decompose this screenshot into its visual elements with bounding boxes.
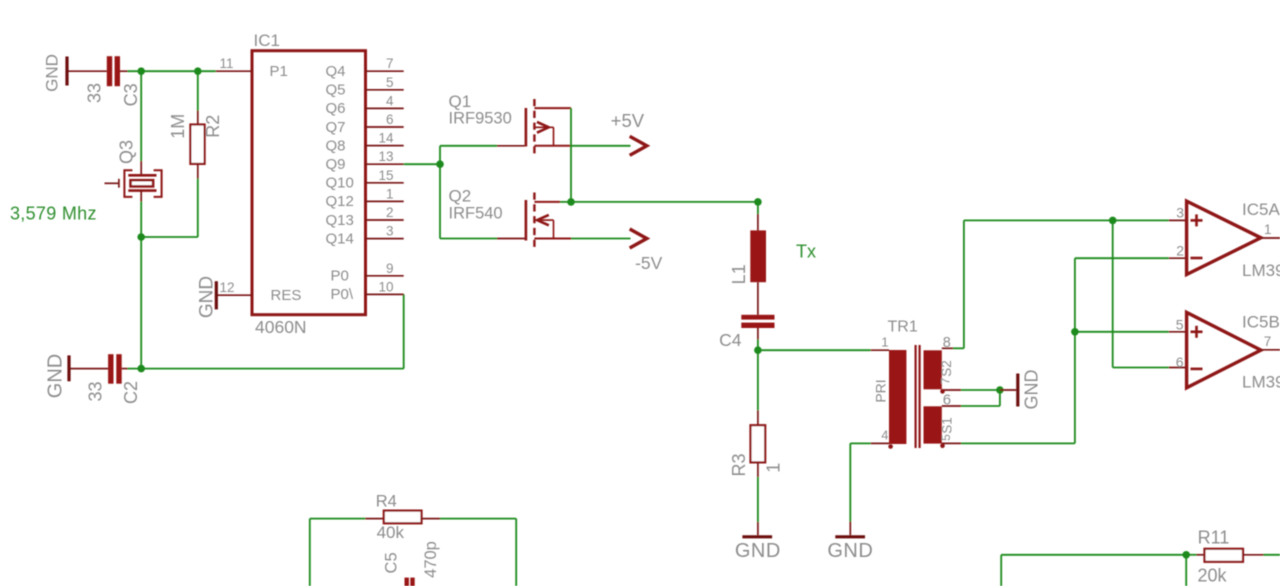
svg-text:C5: C5	[383, 552, 401, 573]
supply arrow +5V	[630, 136, 647, 155]
svg-text:1: 1	[386, 186, 394, 201]
resistor R3	[751, 425, 766, 477]
svg-text:6: 6	[943, 392, 951, 409]
svg-text:C3: C3	[121, 83, 141, 106]
svg-text:1: 1	[1264, 222, 1272, 237]
svg-text:IC1: IC1	[254, 31, 280, 50]
svg-text:8: 8	[943, 335, 951, 351]
svg-text:GND: GND	[45, 354, 67, 398]
wire Q2 drain to junction	[560, 201, 571, 203]
pin 3 (Q14)	[326, 224, 404, 248]
crystal Q3	[105, 161, 162, 202]
ground GND top-left (at C3)	[43, 54, 107, 92]
pin 10 (P0\)	[331, 279, 404, 303]
svg-text:1: 1	[764, 463, 784, 473]
svg-text:9: 9	[386, 261, 394, 276]
svg-text:2: 2	[1176, 242, 1184, 258]
svg-text:5: 5	[1176, 317, 1184, 333]
wire Q1 source to +5V	[571, 145, 631, 147]
svg-text:20k: 20k	[1197, 566, 1227, 586]
wire to R4 left	[310, 518, 384, 520]
svg-text:IRF540: IRF540	[449, 205, 503, 223]
svg-text:+5V: +5V	[611, 110, 645, 131]
ground GND at IC1 RES pin	[197, 276, 218, 318]
wire C2 to IC1 pin 10	[128, 294, 404, 368]
svg-text:33: 33	[85, 381, 105, 401]
pin 4 (Q6)	[326, 93, 404, 117]
svg-text:Q14: Q14	[326, 230, 354, 247]
junction at C4 bottom	[754, 346, 762, 354]
svg-text:7: 7	[386, 56, 394, 71]
svg-text:4: 4	[881, 428, 888, 443]
svg-text:14: 14	[378, 131, 394, 146]
svg-text:Q2: Q2	[449, 187, 472, 206]
pin 1 (Q12)	[326, 186, 404, 210]
svg-text:10: 10	[378, 279, 393, 294]
capacitor C5	[405, 578, 415, 586]
wire TR1 pin 7 to ground junction	[961, 389, 1000, 391]
svg-text:GND: GND	[43, 54, 62, 92]
svg-text:13: 13	[378, 149, 393, 164]
svg-text:6: 6	[386, 112, 394, 127]
svg-text:12: 12	[219, 280, 234, 295]
junction at IC5B pin 5	[1071, 328, 1079, 336]
svg-text:Tx: Tx	[796, 242, 816, 262]
wire junction down to IC5B - input (pin 6)	[1113, 220, 1186, 367]
wire junction down	[1185, 555, 1187, 586]
svg-text:Q9: Q9	[326, 156, 346, 173]
wire down to crystal Q3	[140, 71, 142, 161]
junction at L1 top	[754, 198, 762, 206]
wire TR1 pin 4 to ground	[850, 443, 870, 535]
wire Q1 drain to Q2 drain	[570, 108, 572, 202]
resistor R11	[1205, 549, 1244, 562]
svg-text:S1: S1	[940, 417, 955, 434]
wire bottom-right net into R11	[1001, 555, 1186, 586]
wire crystal bottom down to C2	[140, 237, 142, 369]
svg-text:GND: GND	[1022, 370, 1042, 410]
svg-text:15: 15	[378, 168, 393, 183]
ground GND at center tap	[1000, 370, 1042, 410]
junction at C3/crystal	[137, 67, 145, 75]
svg-text:4060N: 4060N	[255, 317, 307, 337]
svg-text:TR1: TR1	[888, 319, 918, 336]
wire R3 to ground	[757, 477, 759, 535]
svg-text:1M: 1M	[168, 114, 188, 139]
wire Q2 source to -5V	[571, 238, 631, 240]
svg-text:R3: R3	[729, 453, 749, 476]
svg-text:5: 5	[386, 75, 394, 90]
svg-text:RES: RES	[271, 287, 302, 304]
wire R11 right to edge	[1243, 554, 1280, 556]
svg-text:C2: C2	[121, 381, 141, 404]
junction at center tap	[996, 386, 1004, 394]
junction at crystal bottom	[137, 233, 145, 241]
pin 13 (Q9)	[326, 149, 404, 173]
pin 12 (RES)	[217, 280, 301, 304]
svg-text:5: 5	[939, 434, 953, 441]
op-amp IC5B	[1187, 312, 1280, 387]
svg-text:-5V: -5V	[635, 253, 663, 273]
svg-text:R4: R4	[376, 493, 397, 511]
svg-text:GND: GND	[827, 540, 873, 562]
pin 11 (P1)	[216, 56, 288, 80]
wire junction to pin 5	[1075, 331, 1186, 333]
pin 6 (Q7)	[326, 112, 404, 136]
svg-text:GND: GND	[735, 540, 781, 562]
svg-text:Q4: Q4	[326, 63, 346, 80]
svg-text:1: 1	[881, 335, 888, 350]
ground GND below R3	[735, 537, 781, 562]
svg-text:IC5B: IC5B	[1242, 312, 1280, 331]
resistor R4	[384, 511, 422, 524]
wire bottom-left loop left side	[309, 519, 311, 586]
wire junction up to IC5A - input (pin 2)	[1075, 258, 1186, 332]
junction at R2 top	[194, 67, 202, 75]
wire R4 right side down	[422, 519, 517, 586]
svg-text:6: 6	[1176, 354, 1184, 370]
svg-text:GND: GND	[197, 276, 218, 318]
supply arrow -5V	[630, 229, 647, 248]
pin 14 (Q8)	[326, 131, 404, 155]
svg-text:P0: P0	[331, 268, 349, 285]
pin 9 (P0)	[331, 261, 404, 285]
svg-text:Q5: Q5	[326, 82, 346, 99]
wire junction to R11	[1186, 554, 1204, 556]
svg-text:Q13: Q13	[326, 212, 354, 229]
wire junction to pin 3	[1113, 219, 1186, 221]
svg-text:3: 3	[1176, 204, 1184, 220]
svg-text:3,579 Mhz: 3,579 Mhz	[10, 204, 97, 224]
svg-text:Q7: Q7	[326, 119, 346, 136]
junction at IC5A pin 3	[1109, 217, 1117, 225]
svg-text:Q3: Q3	[117, 140, 137, 164]
wire to Q1 gate	[440, 145, 525, 147]
wire to Q2 gate	[440, 238, 525, 240]
svg-text:P0\: P0\	[331, 286, 354, 303]
svg-text:Q10: Q10	[326, 175, 354, 192]
ground GND at C2	[45, 354, 109, 398]
pin 5 (Q5)	[326, 75, 404, 99]
wire gate bus vertical	[439, 146, 441, 239]
svg-text:2: 2	[386, 205, 394, 220]
capacitor C4	[741, 315, 774, 340]
junction at R11 left	[1182, 551, 1190, 559]
wire R2 bottom to crystal bottom	[197, 179, 199, 238]
wire node down to R3	[757, 350, 759, 425]
svg-text:Q6: Q6	[326, 100, 346, 117]
inductor L1	[750, 202, 766, 315]
svg-text:C4: C4	[719, 330, 742, 350]
svg-text:7: 7	[1264, 334, 1272, 349]
pin 2 (Q13)	[326, 205, 404, 229]
svg-text:IC5A: IC5A	[1242, 200, 1280, 219]
wire TR1 pin 6 to junction	[961, 390, 1000, 406]
capacitor C2	[108, 354, 127, 384]
wire net XTAL1: C3 to IC1 pin 11	[128, 70, 216, 72]
wire net Q9 out of pin 13	[404, 163, 440, 165]
svg-text:LM393: LM393	[1242, 261, 1280, 280]
svg-text:11: 11	[219, 56, 233, 71]
svg-text:7: 7	[939, 377, 953, 384]
svg-text:LM393: LM393	[1242, 372, 1280, 391]
junction at C2	[137, 365, 145, 373]
op-amp IC5A	[1187, 201, 1280, 274]
svg-text:33: 33	[85, 83, 105, 103]
wire TR1 pin 5 to IC5B + input	[961, 332, 1075, 444]
svg-text:Q1: Q1	[449, 92, 472, 111]
svg-text:4: 4	[386, 93, 394, 108]
transistor Q2 IRF540	[526, 193, 571, 250]
wire node to TR1 pin 1	[758, 349, 871, 351]
svg-text:IRF9530: IRF9530	[449, 110, 512, 128]
svg-text:470p: 470p	[422, 541, 440, 578]
wire drain node to L1	[571, 201, 758, 203]
svg-text:P1: P1	[270, 63, 288, 80]
wire R2 top pin drop	[197, 71, 199, 110]
wire C4 to node	[757, 340, 759, 351]
pin 7 (Q4)	[326, 56, 404, 80]
svg-text:Q8: Q8	[326, 137, 346, 154]
transformer TR1	[871, 345, 961, 449]
svg-text:3: 3	[386, 224, 394, 239]
svg-text:PRI: PRI	[873, 379, 889, 402]
wire TR1 pin 8 up and to IC5A + input	[953, 220, 1113, 348]
junction at Q2 drain	[567, 198, 575, 206]
resistor R2	[190, 111, 204, 179]
transistor Q1 IRF9530	[526, 99, 571, 157]
svg-text:L1: L1	[729, 264, 749, 284]
svg-text:S2: S2	[939, 360, 954, 377]
svg-text:R11: R11	[1198, 528, 1230, 548]
svg-text:Q12: Q12	[326, 193, 354, 210]
op-amp IC1 body (4060N)	[252, 51, 366, 315]
ground GND below TR1	[827, 537, 873, 562]
junction at gates	[436, 160, 444, 168]
capacitor C3	[107, 56, 128, 86]
svg-text:R2: R2	[203, 115, 223, 138]
svg-text:40k: 40k	[377, 523, 405, 542]
pin 15 (Q10)	[326, 168, 404, 192]
